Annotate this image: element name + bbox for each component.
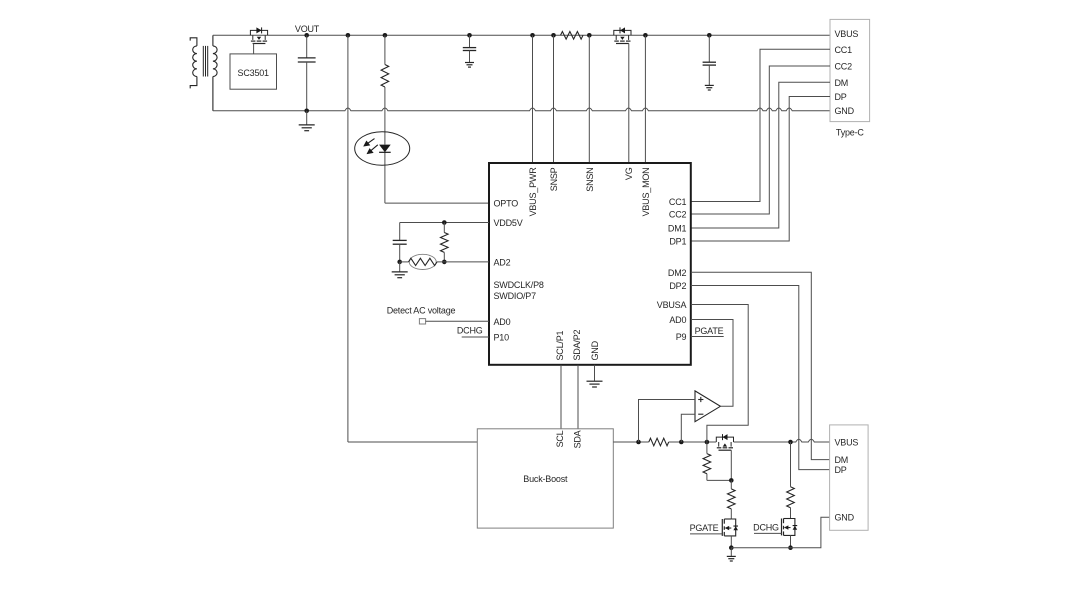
svg-text:SC3501: SC3501 [238,68,270,78]
svg-text:VDD5V: VDD5V [494,218,523,228]
svg-text:AD2: AD2 [494,257,511,267]
svg-text:DP: DP [835,465,847,475]
wire SDA [577,365,579,429]
svg-text:PGATE: PGATE [690,523,719,533]
transistor M5 (DCHG discharge) [754,519,797,536]
junction R5 top [705,440,710,445]
label Detect AC voltage [387,306,456,316]
svg-text:VG: VG [624,167,634,180]
wire GND to connector [731,517,830,548]
capacitor C3 with ground [703,35,716,90]
junction top rail / C3 [707,33,712,38]
svg-text:SCL/P1: SCL/P1 [555,330,565,360]
wire DP1 [691,97,830,242]
wire op-amp + input [639,400,696,443]
block Buck-Boost [477,429,613,528]
transformer T1 core [203,46,207,77]
junction M5-GND [788,545,793,550]
wire M4 source [730,536,732,548]
connector J1 Type-C [830,19,870,121]
IC U1 right pin labels [657,197,687,342]
capacitor C4 [393,240,407,262]
transformer T1 secondary winding [213,35,217,111]
capacitor C1 [298,35,316,111]
label PGATE (P9) [695,326,724,336]
wire SNSP [553,35,555,163]
wire P9 stub [691,336,724,338]
wire R7 top stub [790,442,792,487]
IC U1 top pin labels [528,167,651,217]
wire R4 to M3 [669,441,717,443]
junction SNSP [551,33,556,38]
wire top rail to Buck-Boost input [348,35,477,442]
junction R7 top [788,440,793,445]
svg-text:DP1: DP1 [669,237,686,247]
svg-text:SNSP: SNSP [549,167,559,191]
IC U1 left pin labels [494,199,544,343]
transistor M2 (VBUS switch, gate to VG) [614,27,631,163]
wire R7 to M5 [790,508,792,519]
resistor R3 [441,233,449,253]
node VOUT label [295,24,320,34]
svg-text:VBUS_MON: VBUS_MON [641,168,651,217]
wire R3 stubs [443,223,445,262]
transistor M1 (synchronous rectifier MOSFET) [250,27,267,54]
wire CC1 [691,49,830,201]
wire VBUS_PWR [532,35,534,163]
wire Buck-Boost output to resistor [613,441,649,443]
wire R5 to gate node [707,442,731,480]
wire AD0 left [426,320,489,322]
junction top rail / opto resistor [383,33,388,38]
svg-text:GND: GND [835,106,855,116]
junction VBUS_PWR [530,33,535,38]
IC U1 bottom pin labels [555,329,600,360]
junction op-amp + tap [636,440,641,445]
ground below C1 [299,111,315,131]
resistor R2 (current sense) [561,32,584,40]
ground below C4 [392,262,408,278]
wire DM1 [691,82,830,228]
svg-text:P9: P9 [676,332,687,342]
svg-text:DM1: DM1 [668,224,687,234]
svg-text:AD0: AD0 [494,317,511,327]
transformer T1 primary winding [190,38,197,89]
svg-text:P10: P10 [494,333,510,343]
svg-text:VBUS: VBUS [835,438,859,448]
resistor R6 [728,489,736,509]
junction R3/AD2 [442,260,447,265]
svg-text:VBUS_PWR: VBUS_PWR [528,167,538,217]
label DCHG (gate) [753,523,779,533]
ground IC GND pin [587,365,603,387]
svg-text:DCHG: DCHG [457,325,483,335]
junction SNSN [587,33,592,38]
svg-text:CC1: CC1 [669,197,687,207]
op-amp U2 [695,391,720,422]
transistor M3 (VBUS load switch) [716,434,733,480]
junction top rail / C2 [467,33,472,38]
svg-text:AD0: AD0 [669,315,686,325]
thermistor RT1 [409,254,438,269]
wire AD0 to op-amp output [691,320,733,407]
resistor R1 (opto LED series) [381,65,389,88]
svg-text:PGATE: PGATE [695,326,724,336]
svg-text:CC2: CC2 [835,62,853,72]
node VOUT junction [304,33,309,38]
junction C1-GND rail [304,109,309,114]
svg-text:SNSN: SNSN [585,168,595,192]
svg-text:Detect AC voltage: Detect AC voltage [387,306,456,316]
wire VBUSA [691,305,748,443]
junction gate node [729,478,734,483]
svg-text:VOUT: VOUT [295,24,320,34]
wire SNSN [588,35,590,163]
svg-text:SDA/P2: SDA/P2 [572,329,582,360]
svg-text:SWDIO/P7: SWDIO/P7 [494,291,537,301]
svg-text:DM: DM [835,455,849,465]
svg-text:VBUSA: VBUSA [657,300,687,310]
wire P10 stub [462,336,489,338]
optocoupler U4 (LED) [355,132,410,166]
resistor R7 (discharge) [787,487,795,508]
port square (AC detect) [419,319,425,324]
svg-text:GND: GND [590,340,600,360]
svg-text:CC2: CC2 [669,210,687,220]
junction top rail / Buck-Boost feed [346,33,351,38]
svg-text:SWDCLK/P8: SWDCLK/P8 [494,280,544,290]
svg-text:SCL: SCL [555,430,565,447]
svg-text:OPTO: OPTO [494,199,519,209]
junction VDD5V/R3 [442,220,447,225]
label Type-C [836,128,865,138]
svg-text:Type-C: Type-C [836,128,865,138]
svg-text:GND: GND [835,513,855,523]
label PGATE (gate) [690,523,719,533]
transistor M4 (PGATE pull-down) [690,519,738,536]
wire M3 to VBUS [734,439,830,442]
wire op-amp - input [681,414,695,442]
wire CC2 [691,66,830,214]
ground below M4 [727,548,736,561]
wire R6 to M4 [730,509,732,519]
wire opto branch to OPTO pin [385,35,489,203]
label DCHG [457,325,483,335]
capacitor C2 with ground [463,35,476,67]
wire top VOUT rail [213,34,830,36]
junction op-amp - tap [679,440,684,445]
junction C4/AD2 [397,260,402,265]
IC U3 SC3501 [230,54,277,89]
resistor R5 (gate-source) [703,454,711,474]
svg-text:DP: DP [835,92,847,102]
wire DP2 [691,286,830,470]
svg-text:CC1: CC1 [835,45,853,55]
svg-text:SDA: SDA [573,430,583,448]
wire VDD5V [400,223,489,241]
svg-text:DP2: DP2 [669,281,686,291]
connector J2 (USB out) [830,425,869,530]
wire gate node to R6 [730,480,732,489]
svg-text:Buck-Boost: Buck-Boost [523,474,568,484]
resistor R4 [649,438,669,446]
wire lower GND rail [213,108,830,111]
svg-text:VBUS: VBUS [835,29,859,39]
wire M5 source [790,535,792,547]
svg-text:DM: DM [835,78,849,88]
wire SCL [560,365,562,429]
junction VBUS_MON [643,33,648,38]
wire VBUS_MON [644,35,646,163]
svg-text:DCHG: DCHG [753,523,779,533]
svg-text:DM2: DM2 [668,268,687,278]
wire AD2 [400,261,489,263]
wire DM2 [691,272,830,459]
IC U1 (USB-PD controller) [489,163,691,365]
junction M4-GND [729,545,734,550]
